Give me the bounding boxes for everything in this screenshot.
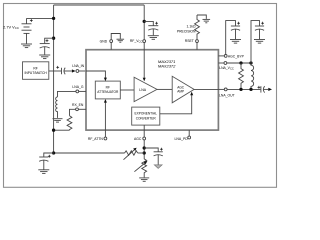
- pin LNA_PD: wire below chip: [188, 130, 190, 136]
- node: R2 bottom: [239, 88, 242, 91]
- svg-text:RSET: RSET: [185, 39, 194, 43]
- wire: C7 stub: [44, 153, 54, 157]
- wire: GND pin stubs: [110, 43, 112, 50]
- pin AGC_BYP circle: [224, 55, 227, 58]
- node: rail/bottom junction: [52, 151, 55, 154]
- ground: battery: [21, 44, 32, 48]
- node: rail/C1 junction: [52, 37, 55, 40]
- block: RF INPUT/MATCH box: [23, 62, 49, 80]
- node: rail/R3 junction: [52, 129, 55, 132]
- svg-text:AMP: AMP: [177, 90, 184, 94]
- ground: RSET resistor: [203, 19, 211, 22]
- ground: C8 (signal ground triangle): [154, 165, 162, 169]
- capacitor C1 (supply bypass): [40, 44, 50, 55]
- battery + sign: [30, 19, 33, 22]
- wire: converter out to AGC amp: [160, 95, 192, 114]
- amp AGC AMP triangle: [172, 76, 194, 103]
- arrow into attenuator bottom: [104, 99, 107, 103]
- C4 + sign: [237, 22, 240, 25]
- battery B1 2.7V: [22, 18, 32, 43]
- pin LNA_PD circle: [188, 136, 191, 139]
- ground: GND pin: [117, 39, 125, 42]
- arrow R5 (variable): [134, 161, 147, 172]
- wire: Vcc rail vertical: [53, 5, 55, 153]
- svg-text:EXPONENTIAL: EXPONENTIAL: [135, 112, 158, 116]
- svg-text:LNA_G: LNA_G: [72, 85, 83, 89]
- wire: LNA_IN feed inside chip: [86, 71, 105, 78]
- wire: LNA_G pin to chip: [79, 90, 86, 92]
- wire: AGC pin down: [143, 140, 145, 155]
- wire: top Vcc bus: [54, 4, 145, 6]
- arrow into LNA_IN pin: [72, 69, 76, 72]
- arrow: RF output: [268, 88, 272, 91]
- C1 + sign: [46, 39, 49, 42]
- wire: R3 to rail: [54, 129, 70, 131]
- capacitor C4 (AGC_BYP bypass): [231, 26, 240, 39]
- node: RF_Vcc bypass junction: [143, 20, 146, 23]
- wire: LNA to AGC amp: [157, 88, 172, 90]
- pin RF_Vcc circle: [143, 40, 146, 43]
- capacitor C3 (RF_Vcc bypass): [148, 26, 158, 36]
- svg-text:1.1kΩ: 1.1kΩ: [187, 25, 196, 29]
- wire: rail to C1: [45, 38, 54, 43]
- wire: match box to C2: [49, 70, 61, 72]
- svg-text:AGC_BYP: AGC_BYP: [228, 55, 245, 59]
- pin RX_EN circle: [76, 108, 79, 111]
- pin LNA_IN circle: [76, 70, 79, 73]
- ground: C5: [254, 40, 265, 44]
- C2 + sign: [56, 66, 59, 69]
- wire: LNA_IN pin to chip: [79, 70, 86, 72]
- block: EXPONENTIAL CONVERTER box: [132, 107, 160, 125]
- C5 + sign: [261, 22, 264, 25]
- wire: LNA_OUT to C6: [227, 88, 260, 90]
- C3 + sign: [155, 22, 158, 25]
- wire: LNA_G to L1: [58, 91, 76, 97]
- ground: C1: [39, 55, 50, 59]
- svg-text:CONVERTER: CONVERTER: [136, 116, 157, 120]
- wire: attenuator control from RF_ATTN: [104, 102, 106, 130]
- wire: R4 to AGC node: [138, 152, 145, 154]
- block: RF ATTENUATOR box: [95, 81, 120, 99]
- svg-text:2.7V VCC: 2.7V VCC: [3, 24, 19, 30]
- ground: R5: [139, 178, 149, 181]
- node: AGC/pot junction: [143, 151, 146, 154]
- chip U1 MAX2371/MAX2372 outline: [86, 50, 218, 130]
- ground: L1: [53, 119, 63, 122]
- capacitor C8 (AGC filter): [154, 152, 163, 165]
- node: L2 bottom: [249, 88, 252, 91]
- wire: battery to rail: [27, 17, 54, 19]
- wire: LNA_Vcc pin: [218, 62, 224, 64]
- pin AGC circle: [143, 137, 146, 140]
- wire: AGC pin from converter: [143, 125, 145, 137]
- node: rail/battery junction: [52, 17, 55, 20]
- pin GND circle: [110, 40, 113, 43]
- capacitor C7 (bottom bypass): [39, 157, 48, 170]
- svg-text:LNA_PD: LNA_PD: [174, 137, 188, 141]
- potentiometer R5 (vertical, AGC set): [142, 155, 147, 177]
- svg-text:ATTENUATOR: ATTENUATOR: [97, 90, 119, 94]
- capacitor C2 (input coupling): [62, 68, 72, 75]
- svg-text:GND: GND: [100, 39, 108, 43]
- capacitor C6 (output coupling): [261, 86, 268, 92]
- svg-text:RF_VCC: RF_VCC: [130, 39, 143, 43]
- wire: AGC amp out to LNA_OUT: [194, 88, 218, 90]
- svg-text:LNA: LNA: [139, 88, 146, 92]
- svg-text:LNA_VCC: LNA_VCC: [219, 66, 234, 70]
- amp LNA triangle: [134, 77, 157, 101]
- pin RF_ATTN: wire below chip: [104, 130, 106, 137]
- arrow into attenuator top: [104, 78, 107, 82]
- wire: C5 from L2 node up: [251, 21, 260, 63]
- wire: RSET stub to chip: [196, 43, 198, 50]
- pin LNA_OUT circle: [224, 88, 227, 91]
- svg-text:AGC: AGC: [134, 137, 142, 141]
- arrow R4 (variable): [124, 148, 137, 160]
- wire: RF_Vcc pin into chip to LNA arrow: [143, 43, 145, 79]
- border frame: [4, 4, 277, 188]
- node: L2 top: [249, 61, 252, 64]
- arrow onto LNA (supply): [143, 78, 146, 82]
- inductor L2 (LNA load choke): [251, 63, 254, 89]
- resistor R1 1.1k RSET: [195, 15, 207, 40]
- pin LNA_G circle: [76, 90, 79, 93]
- wire: RX_EN to R3: [70, 109, 76, 116]
- wire: AGC_BYP up to C4: [226, 21, 236, 55]
- wire: LNA_Vcc to components: [227, 62, 251, 64]
- pin LNA_Vcc circle: [224, 62, 227, 65]
- svg-text:PRECISION: PRECISION: [177, 29, 196, 33]
- wire: RX_EN pin to chip: [78, 108, 86, 110]
- C7 + sign: [48, 155, 51, 158]
- wire: attenuator out to LNA: [120, 89, 134, 91]
- C6 + sign: [258, 86, 261, 89]
- C8 + sign: [160, 148, 163, 151]
- inductor L1 (LNA_G): [56, 97, 58, 118]
- wire: bus drop to RF_Vcc pin: [143, 5, 145, 40]
- svg-text:RF: RF: [33, 66, 37, 70]
- svg-text:INPUT/MATCH: INPUT/MATCH: [24, 71, 47, 75]
- wire: AGC node to C8: [144, 148, 158, 152]
- svg-text:RX_EN: RX_EN: [72, 103, 84, 107]
- resistor R3 (RX_EN pullup): [67, 116, 72, 130]
- ground: C7: [38, 170, 49, 174]
- wire: LNA_OUT pin: [218, 88, 224, 90]
- potentiometer R4 (horizontal, AGC set): [125, 151, 138, 155]
- node: AGC/C8 junction: [143, 146, 146, 149]
- resistor R2 (LNA load): [239, 63, 244, 89]
- svg-text:RF: RF: [106, 85, 110, 89]
- svg-text:LNA_OUT: LNA_OUT: [219, 94, 235, 98]
- wire: bottom bus: [54, 152, 125, 154]
- ground: C4: [230, 40, 241, 44]
- svg-text:RF_ATTN: RF_ATTN: [88, 137, 104, 141]
- wire: AGC_BYP pin: [218, 55, 224, 57]
- svg-text:LNA_IN: LNA_IN: [72, 64, 84, 68]
- capacitor C5 (LNA_Vcc bypass): [255, 26, 264, 39]
- pin RF_ATTN circle: [104, 137, 107, 140]
- pin RSET circle: [196, 40, 199, 43]
- ground: C3: [148, 36, 159, 40]
- wire: junction to C3: [144, 21, 153, 25]
- arrow into AGC amp gain: [190, 92, 193, 96]
- node: R2 top: [239, 61, 242, 64]
- svg-text:MAX2372: MAX2372: [158, 64, 176, 69]
